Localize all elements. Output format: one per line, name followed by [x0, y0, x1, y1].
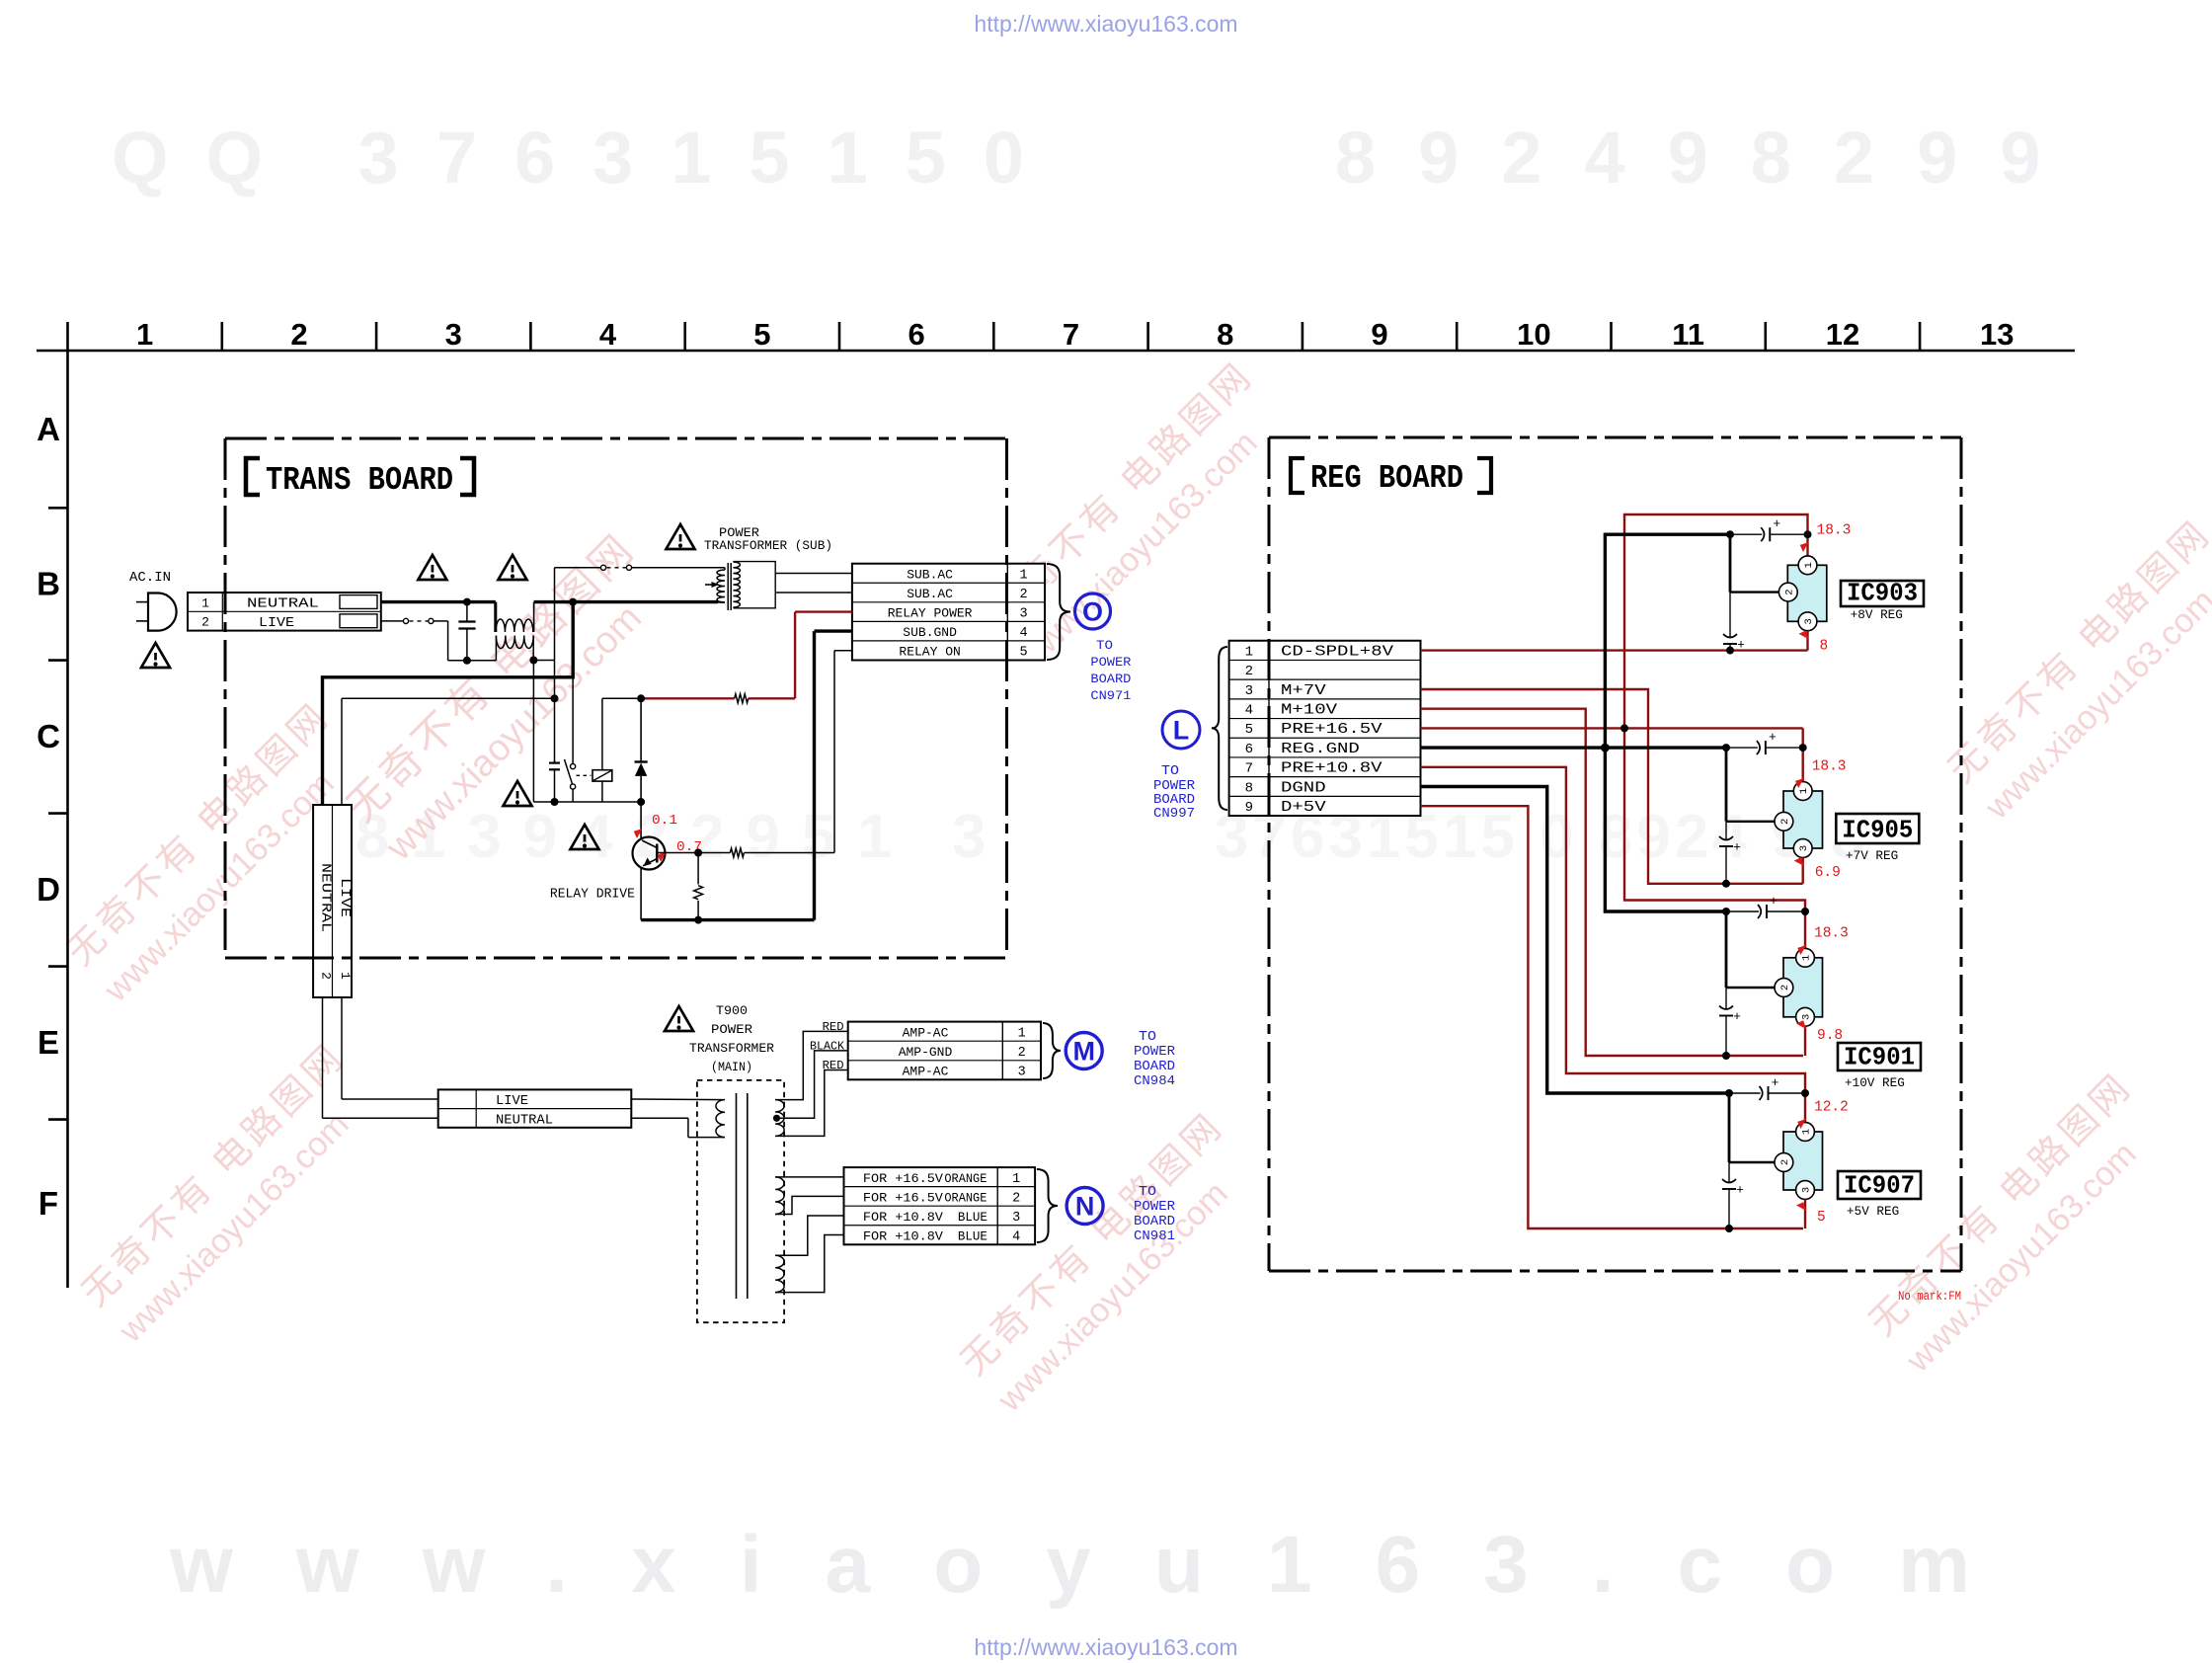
svg-text:2: 2 — [1019, 588, 1027, 602]
wire FOR+16.5V 1 — [775, 1176, 843, 1178]
ruler left ticks — [48, 507, 68, 510]
svg-text:3: 3 — [1018, 1065, 1026, 1079]
svg-text:5: 5 — [753, 317, 770, 352]
AC plug J1 — [148, 594, 177, 631]
connector CN (LIVE/NEUTRAL vertical) — [313, 805, 352, 997]
connector table CN997 side (REG) — [1229, 641, 1421, 816]
wire sub secondary to table row2 — [775, 592, 852, 594]
svg-text:POWER: POWER — [1134, 1200, 1175, 1215]
svg-text:RELAY POWER: RELAY POWER — [888, 606, 973, 621]
svg-text:1: 1 — [1245, 644, 1253, 660]
svg-text:TO: TO — [1096, 638, 1113, 653]
svg-text:ORANGE: ORANGE — [944, 1172, 987, 1186]
svg-text:2: 2 — [1012, 1191, 1020, 1206]
svg-text:M+10V: M+10V — [1281, 702, 1337, 718]
svg-text:No mark:FM: No mark:FM — [1898, 1289, 1961, 1304]
wire 16.5V to IC905 pin1 — [1801, 728, 1803, 781]
junction: choke out — [529, 657, 537, 665]
TRANS BOARD title — [246, 458, 260, 495]
wire LIVE to vertical connector — [342, 697, 555, 699]
label IC907 output voltage — [1796, 1200, 1809, 1213]
svg-text:IC905: IC905 — [1842, 816, 1913, 845]
svg-text:BOARD: BOARD — [1134, 1060, 1175, 1074]
svg-text:PRE+10.8V: PRE+10.8V — [1281, 761, 1382, 777]
svg-text:5: 5 — [1245, 722, 1253, 738]
wire RELAY POWER (red) — [851, 601, 853, 603]
REG BOARD title — [1291, 458, 1304, 493]
svg-text:CN971: CN971 — [1090, 688, 1131, 703]
svg-text:8: 8 — [1217, 317, 1233, 352]
svg-text:A: A — [37, 411, 60, 447]
svg-text:POWER: POWER — [1090, 655, 1131, 670]
svg-text:1: 1 — [1803, 562, 1815, 568]
svg-text:REG.GND: REG.GND — [1281, 742, 1360, 757]
svg-text:+: + — [1733, 840, 1741, 855]
wire neutral to vertical connector — [323, 602, 574, 805]
svg-text:2: 2 — [1245, 664, 1253, 679]
warning triangle (AC) — [141, 643, 170, 668]
svg-text:www.xiaoyu163.com: www.xiaoyu163.com — [169, 1520, 2033, 1610]
wire PRE+10.8V (row7) — [1421, 767, 1806, 1123]
svg-text:+8V REG: +8V REG — [1851, 607, 1903, 622]
svg-text:18.3: 18.3 — [1812, 759, 1847, 775]
svg-text:+: + — [1733, 1009, 1741, 1024]
IC IC907 input cap — [1725, 1089, 1733, 1097]
wire IC901 pin3 to output — [1804, 1026, 1806, 1056]
svg-text:L: L — [1173, 716, 1190, 746]
svg-text:CD-SPDL+8V: CD-SPDL+8V — [1281, 644, 1393, 660]
warning triangle (B2) — [418, 555, 446, 580]
svg-text:LIVE: LIVE — [337, 878, 352, 917]
junction: relay power node — [637, 694, 645, 702]
ruler top line — [37, 350, 2075, 353]
svg-text:POWER: POWER — [1153, 779, 1195, 794]
svg-text:5: 5 — [1019, 646, 1027, 661]
svg-text:IC907: IC907 — [1844, 1171, 1915, 1201]
junction: cap/LIVE line — [463, 657, 471, 665]
wire D+5V (row9) — [1421, 806, 1804, 1228]
warning triangle (relay drive) — [571, 825, 599, 849]
svg-text:FOR +10.8V: FOR +10.8V — [863, 1210, 943, 1225]
label IC901 — [1838, 1043, 1921, 1070]
svg-text:F: F — [39, 1185, 58, 1222]
label IC901 output voltage — [1796, 1018, 1809, 1031]
wire DGND (row8) — [1421, 787, 1730, 1094]
warning triangle (T900) — [665, 1006, 693, 1031]
svg-text:D: D — [37, 871, 60, 908]
switch S1 (LIVE) — [381, 620, 404, 622]
svg-text:NEUTRAL: NEUTRAL — [496, 1113, 553, 1128]
connector symbol M — [1066, 1033, 1102, 1069]
svg-text:T900: T900 — [716, 1003, 748, 1018]
wire switched LIVE riser — [554, 568, 556, 763]
svg-text:+: + — [1769, 730, 1777, 745]
svg-text:TRANSFORMER: TRANSFORMER — [689, 1041, 774, 1056]
svg-text:2: 2 — [290, 317, 307, 352]
svg-text:1: 1 — [1801, 1129, 1813, 1135]
svg-text:http://www.xiaoyu163.com: http://www.xiaoyu163.com — [974, 1634, 1237, 1660]
svg-text:LIVE: LIVE — [496, 1094, 528, 1109]
wire FOR+16.5V 2 — [775, 1196, 843, 1214]
power transformer T901 (SUB) — [717, 570, 725, 602]
svg-text:IC903: IC903 — [1847, 579, 1918, 608]
svg-text:http://www.xiaoyu163.com: http://www.xiaoyu163.com — [974, 11, 1237, 37]
svg-text:9: 9 — [1371, 317, 1387, 352]
svg-text:B: B — [37, 566, 60, 602]
ruler top ticks — [66, 322, 69, 351]
svg-text:2: 2 — [201, 615, 209, 630]
resistor R903 (pulldown) — [697, 853, 699, 885]
label IC903 input voltage — [1798, 539, 1811, 552]
regulator IC903 — [1787, 565, 1827, 621]
resistor R902 (base) — [730, 848, 744, 857]
wire M+10V (row4) — [1421, 709, 1804, 1056]
capacitor CX (AC filter) — [466, 602, 468, 622]
svg-text:TO: TO — [1139, 1030, 1156, 1045]
label IC901 input voltage — [1795, 942, 1808, 955]
IC IC907 pillar — [1728, 1093, 1731, 1162]
regulator IC905 — [1783, 791, 1823, 848]
svg-text:6: 6 — [1245, 742, 1253, 757]
svg-text:POWER: POWER — [711, 1022, 752, 1037]
AC inlet connector — [188, 593, 381, 631]
svg-text:+5V REG: +5V REG — [1847, 1204, 1899, 1219]
arrow into primary — [705, 584, 714, 586]
svg-text:D+5V: D+5V — [1281, 800, 1326, 816]
svg-text:1: 1 — [1012, 1172, 1020, 1187]
svg-text:+: + — [1736, 1183, 1744, 1198]
junction: neutral/cap — [463, 598, 471, 606]
resistor R901 — [735, 694, 749, 703]
watermark pink 3 — [1939, 512, 2212, 827]
IC IC901 output cap — [1725, 988, 1727, 1009]
wire IC905 pin3 to output — [1801, 857, 1803, 883]
svg-text:POWER: POWER — [1134, 1045, 1175, 1060]
svg-text:CN981: CN981 — [1134, 1229, 1175, 1244]
svg-text:0.1: 0.1 — [652, 814, 677, 829]
svg-text:LIVE: LIVE — [259, 616, 294, 631]
watermark pink 6 — [1860, 1065, 2175, 1380]
wire GND riser up to IC903 — [1605, 534, 1730, 748]
svg-text:CN984: CN984 — [1134, 1074, 1175, 1089]
svg-text:N: N — [1075, 1192, 1095, 1222]
wire 16.5V riser to IC903/IC901 — [1624, 515, 1808, 728]
IC IC905 pillar — [1725, 748, 1728, 822]
svg-text:IC901: IC901 — [1844, 1043, 1915, 1072]
svg-text:CN997: CN997 — [1153, 807, 1195, 822]
IC IC907 output cap — [1728, 1162, 1730, 1182]
svg-text:1: 1 — [1019, 568, 1027, 583]
svg-text:4: 4 — [1019, 626, 1027, 641]
junction: 16.5V node — [1620, 724, 1628, 732]
svg-text:1: 1 — [338, 972, 353, 980]
svg-text:3: 3 — [1245, 683, 1253, 699]
center tap — [773, 1115, 780, 1122]
svg-text:TO: TO — [1161, 764, 1179, 779]
label 0.7 — [656, 849, 669, 862]
wire base — [657, 852, 698, 854]
svg-text:3: 3 — [1801, 1014, 1813, 1020]
svg-text:ORANGE: ORANGE — [944, 1191, 987, 1205]
svg-text:DGND: DGND — [1281, 780, 1326, 796]
diode D901 — [640, 698, 642, 761]
watermark pink 2 — [982, 354, 1297, 669]
svg-text:1: 1 — [1018, 1026, 1026, 1041]
wire SUB.GND (black) — [815, 629, 852, 632]
svg-text:BLUE: BLUE — [958, 1211, 987, 1225]
junction: diode to rail — [637, 798, 645, 806]
svg-text:6: 6 — [908, 317, 925, 352]
wire RELAY ON — [834, 650, 852, 652]
label 0.1 — [632, 826, 645, 838]
svg-text:SUB.AC: SUB.AC — [907, 567, 953, 582]
junction: LIVE to main connector — [551, 694, 559, 702]
svg-text:3: 3 — [1801, 1187, 1813, 1193]
label IC903 output voltage — [1798, 629, 1811, 642]
svg-text:4: 4 — [1012, 1229, 1020, 1244]
svg-text:NEUTRAL: NEUTRAL — [318, 863, 333, 932]
fuse F1 — [340, 595, 377, 609]
wire IC903 pin3 to output — [1806, 631, 1808, 651]
junction: base node — [694, 849, 702, 857]
choke L1 (common mode) — [496, 619, 533, 632]
connector symbol O — [1075, 594, 1111, 629]
connector symbol N — [1066, 1188, 1103, 1225]
warning triangle (sub transformer) — [667, 524, 695, 549]
svg-text:2: 2 — [1783, 589, 1795, 594]
brace to M — [1043, 1023, 1061, 1078]
T900 secondary 2 (16.5V) — [775, 1177, 784, 1215]
svg-text:10: 10 — [1517, 317, 1550, 352]
REG BOARD border — [1269, 436, 1961, 439]
label IC907 input voltage — [1795, 1116, 1808, 1129]
fuse F2 — [340, 614, 377, 628]
svg-text:18.3: 18.3 — [1817, 523, 1852, 539]
svg-text:9: 9 — [1245, 800, 1253, 816]
wire AMP-GND (black) — [777, 1051, 848, 1118]
T900 secondary 1 (AMP) — [775, 1100, 784, 1137]
IC IC903 input cap — [1726, 530, 1734, 538]
svg-text:TRANSFORMER (SUB): TRANSFORMER (SUB) — [704, 538, 832, 553]
watermark pink 4 — [73, 1035, 388, 1350]
connector table (LIVE/NEUTRAL) — [438, 1089, 632, 1127]
svg-text:2: 2 — [1779, 1159, 1791, 1165]
svg-text:M: M — [1072, 1037, 1095, 1067]
svg-text:AC.IN: AC.IN — [129, 570, 171, 586]
wire CD-SPDL+8V (row1, +8V output) — [1421, 649, 1808, 651]
wire GND riser down to IC901 — [1605, 748, 1726, 911]
relay bottom rail — [532, 661, 534, 803]
svg-text:18.3: 18.3 — [1814, 926, 1849, 942]
label IC905 — [1836, 814, 1919, 843]
svg-text:+: + — [1773, 516, 1780, 531]
svg-text:3: 3 — [1019, 607, 1027, 622]
svg-text:AMP-AC: AMP-AC — [903, 1025, 949, 1040]
watermark pink 1 — [337, 523, 682, 869]
svg-text:7: 7 — [1063, 317, 1079, 352]
brace to L — [1212, 647, 1227, 810]
connector table CN971 side (SUB) — [852, 564, 1045, 661]
junction: emitter rail — [694, 916, 702, 924]
brace to O — [1047, 564, 1070, 660]
regulator IC901 — [1783, 958, 1823, 1017]
svg-text:RELAY ON: RELAY ON — [899, 645, 960, 660]
junction: cap to rail — [551, 798, 559, 806]
warning triangle (B3) — [499, 555, 527, 580]
svg-text:13: 13 — [1980, 317, 2014, 352]
svg-text:+: + — [1772, 1075, 1779, 1090]
svg-text:7: 7 — [1245, 761, 1253, 777]
svg-text:+: + — [1737, 638, 1745, 653]
svg-text:RELAY DRIVE: RELAY DRIVE — [550, 887, 635, 903]
regulator IC907 — [1783, 1132, 1823, 1190]
svg-text:FOR +10.8V: FOR +10.8V — [863, 1228, 943, 1243]
svg-text:3: 3 — [1012, 1211, 1020, 1226]
svg-text:12: 12 — [1826, 317, 1859, 352]
svg-text:NEUTRAL: NEUTRAL — [247, 597, 319, 612]
IC IC905 output cap — [1725, 822, 1727, 839]
svg-text:8: 8 — [1245, 780, 1253, 796]
svg-text:3: 3 — [445, 317, 462, 352]
svg-text:2: 2 — [319, 972, 334, 980]
svg-text:8: 8 — [1820, 638, 1829, 654]
svg-text:M+7V: M+7V — [1281, 683, 1326, 699]
wire LIVE to filter — [434, 620, 448, 622]
svg-text:PRE+16.5V: PRE+16.5V — [1281, 722, 1382, 738]
svg-text:11: 11 — [1672, 317, 1704, 352]
svg-text:AMP-GND: AMP-GND — [899, 1045, 953, 1060]
svg-text:TRANS BOARD: TRANS BOARD — [266, 462, 453, 499]
svg-text:FOR +16.5V: FOR +16.5V — [863, 1171, 943, 1186]
label IC905 input voltage — [1793, 775, 1806, 788]
IC IC901 input cap — [1722, 908, 1730, 915]
svg-text:O: O — [1082, 597, 1103, 627]
T900 primary coil — [631, 1098, 725, 1101]
svg-text:892498299: 892498299 — [1335, 117, 2083, 198]
relay switch contacts — [572, 602, 574, 764]
svg-text:+: + — [1770, 894, 1777, 909]
capacitor C901 (relay) — [554, 760, 556, 762]
svg-text:+10V REG: +10V REG — [1845, 1075, 1905, 1090]
junction: neutral/relay branch — [569, 598, 577, 606]
transformer T900 dashed outline — [697, 1080, 784, 1322]
relay coil RY901 — [592, 770, 612, 781]
svg-text:1: 1 — [1801, 955, 1813, 961]
svg-text:RED: RED — [823, 1059, 844, 1072]
svg-text:1: 1 — [201, 595, 209, 610]
label IC905 output voltage — [1794, 855, 1807, 868]
wire PRE+16.5V (row5) — [1421, 727, 1803, 729]
svg-text:2: 2 — [1779, 985, 1791, 990]
svg-text:5: 5 — [1817, 1210, 1826, 1226]
wire choke out to switch riser — [533, 660, 554, 662]
TRANS BOARD border — [225, 437, 1007, 440]
warning triangle (relay) — [504, 781, 532, 806]
svg-text:(MAIN): (MAIN) — [711, 1060, 752, 1074]
IC IC905 input cap — [1722, 744, 1730, 752]
connector symbol L — [1162, 711, 1200, 749]
svg-text:1: 1 — [136, 317, 153, 352]
svg-text:2: 2 — [1779, 819, 1791, 825]
wire connector to NEUTRAL row — [322, 997, 324, 1118]
svg-text:1: 1 — [1798, 788, 1810, 794]
wire REG.GND (row6) — [1421, 746, 1727, 749]
svg-text:12.2: 12.2 — [1814, 1100, 1849, 1116]
wire AMP-AC 3 (red) — [775, 1070, 848, 1137]
wire AMP-AC 1 (red) — [775, 1031, 848, 1099]
svg-text:3: 3 — [1803, 618, 1815, 624]
svg-text:E: E — [38, 1024, 59, 1061]
svg-text:REG BOARD: REG BOARD — [1310, 460, 1463, 497]
svg-text:BOARD: BOARD — [1134, 1215, 1175, 1229]
label IC903 — [1841, 581, 1924, 606]
wire IC907 pin3 to output — [1804, 1199, 1806, 1228]
watermark pink 5 — [952, 1104, 1267, 1419]
wire FOR+10.8V 4 — [775, 1235, 843, 1293]
connector table CN981 side (FOR) — [844, 1167, 1036, 1244]
svg-text:2: 2 — [1018, 1046, 1026, 1061]
svg-text:BOARD: BOARD — [1090, 672, 1131, 686]
svg-text:QQ 376315150: QQ 376315150 — [112, 117, 1062, 198]
brace to N — [1037, 1169, 1058, 1242]
svg-text:BLUE: BLUE — [958, 1229, 987, 1243]
emitter rail — [641, 918, 814, 921]
svg-text:AMP-AC: AMP-AC — [903, 1064, 949, 1078]
IC IC903 pillar — [1729, 534, 1732, 592]
svg-text:6.9: 6.9 — [1815, 865, 1841, 881]
svg-text:+7V REG: +7V REG — [1846, 848, 1898, 863]
svg-text:SUB.GND: SUB.GND — [903, 625, 957, 640]
switch S2 (sub primary) — [555, 567, 601, 569]
svg-text:SUB.AC: SUB.AC — [907, 587, 953, 601]
ruler left line — [66, 351, 69, 1288]
svg-text:9.8: 9.8 — [1817, 1028, 1843, 1044]
svg-text:3: 3 — [1798, 845, 1810, 851]
IC IC901 pillar — [1725, 911, 1728, 988]
svg-text:C: C — [37, 718, 60, 754]
svg-text:BLACK: BLACK — [810, 1040, 845, 1054]
svg-text:FOR +16.5V: FOR +16.5V — [863, 1190, 943, 1205]
svg-text:BOARD: BOARD — [1153, 793, 1195, 808]
T900 secondary 3 (10.8V) — [775, 1255, 784, 1292]
T900 core — [736, 1093, 738, 1299]
IC IC903 output cap — [1729, 593, 1731, 637]
svg-text:TO: TO — [1139, 1185, 1156, 1200]
wire sub secondary to table row1 — [775, 573, 852, 575]
wire NEUTRAL net — [381, 600, 496, 603]
wire M+7V (row3) — [1421, 689, 1803, 884]
label IC907 — [1838, 1171, 1921, 1199]
svg-text:4: 4 — [1245, 702, 1253, 718]
wire FOR+10.8V 3 — [775, 1216, 843, 1255]
svg-text:4: 4 — [599, 317, 617, 352]
watermark pink 7 — [58, 694, 373, 1009]
connector table CN984 side (AMP) — [848, 1022, 1041, 1080]
transistor Q901 (relay drive) — [640, 802, 642, 840]
wire connector to LIVE row — [341, 997, 343, 1099]
svg-text:RED: RED — [823, 1020, 844, 1034]
junction: GND node — [1601, 744, 1610, 752]
